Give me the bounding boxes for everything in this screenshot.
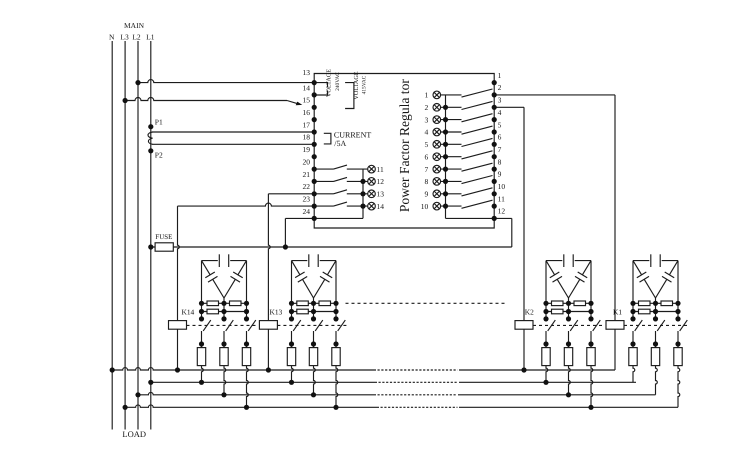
- svg-text:1: 1: [425, 91, 429, 100]
- svg-text:10: 10: [421, 202, 429, 211]
- svg-text:240VAC: 240VAC: [335, 72, 341, 91]
- svg-text:7: 7: [498, 145, 502, 154]
- svg-text:1: 1: [498, 71, 502, 80]
- svg-text:LOAD: LOAD: [122, 429, 146, 439]
- svg-text:14: 14: [377, 202, 385, 211]
- svg-text:2: 2: [498, 83, 502, 92]
- svg-text:415VAC: 415VAC: [361, 75, 367, 94]
- svg-text:11: 11: [377, 165, 384, 174]
- svg-text:12: 12: [377, 177, 385, 186]
- svg-text:17: 17: [303, 120, 311, 129]
- svg-text:7: 7: [425, 165, 429, 174]
- svg-text:L1: L1: [146, 33, 155, 42]
- svg-text:12: 12: [498, 207, 506, 216]
- svg-text:K13: K13: [270, 308, 283, 317]
- svg-text:6: 6: [425, 152, 429, 161]
- svg-text:P2: P2: [155, 151, 163, 160]
- svg-text:19: 19: [303, 145, 311, 154]
- svg-text:24: 24: [303, 207, 311, 216]
- svg-text:N: N: [109, 33, 115, 42]
- svg-text:VOLTAGE: VOLTAGE: [353, 71, 360, 99]
- svg-text:3: 3: [425, 115, 429, 124]
- svg-text:20: 20: [303, 157, 311, 166]
- svg-text:8: 8: [425, 177, 429, 186]
- svg-text:L3: L3: [120, 33, 129, 42]
- svg-text:10: 10: [498, 182, 506, 191]
- svg-text:14: 14: [303, 83, 311, 92]
- svg-text:K2: K2: [525, 308, 534, 317]
- svg-text:P1: P1: [155, 118, 163, 127]
- svg-text:Power Factor Regula tor: Power Factor Regula tor: [397, 79, 412, 212]
- svg-text:3: 3: [498, 96, 502, 105]
- svg-text:22: 22: [303, 182, 311, 191]
- svg-text:21: 21: [303, 170, 311, 179]
- svg-text:15: 15: [303, 96, 311, 105]
- svg-text:23: 23: [303, 195, 311, 204]
- svg-text:5: 5: [425, 140, 429, 149]
- svg-text:2: 2: [425, 103, 429, 112]
- svg-text:/5A: /5A: [334, 139, 346, 148]
- svg-text:5: 5: [498, 120, 502, 129]
- svg-text:4: 4: [498, 108, 502, 117]
- svg-text:4: 4: [425, 128, 429, 137]
- svg-text:18: 18: [303, 133, 311, 142]
- svg-text:VOLTAGE: VOLTAGE: [325, 69, 332, 97]
- svg-text:FUSE: FUSE: [155, 233, 172, 241]
- svg-text:9: 9: [425, 189, 429, 198]
- svg-text:K1: K1: [613, 308, 622, 317]
- svg-text:L2: L2: [132, 33, 141, 42]
- svg-text:9: 9: [498, 170, 502, 179]
- svg-text:16: 16: [303, 108, 311, 117]
- svg-text:13: 13: [303, 68, 311, 77]
- svg-text:6: 6: [498, 133, 502, 142]
- svg-text:13: 13: [377, 189, 385, 198]
- svg-text:8: 8: [498, 157, 502, 166]
- svg-text:MAIN: MAIN: [124, 21, 145, 30]
- svg-text:K14: K14: [182, 308, 195, 317]
- svg-text:11: 11: [498, 194, 505, 203]
